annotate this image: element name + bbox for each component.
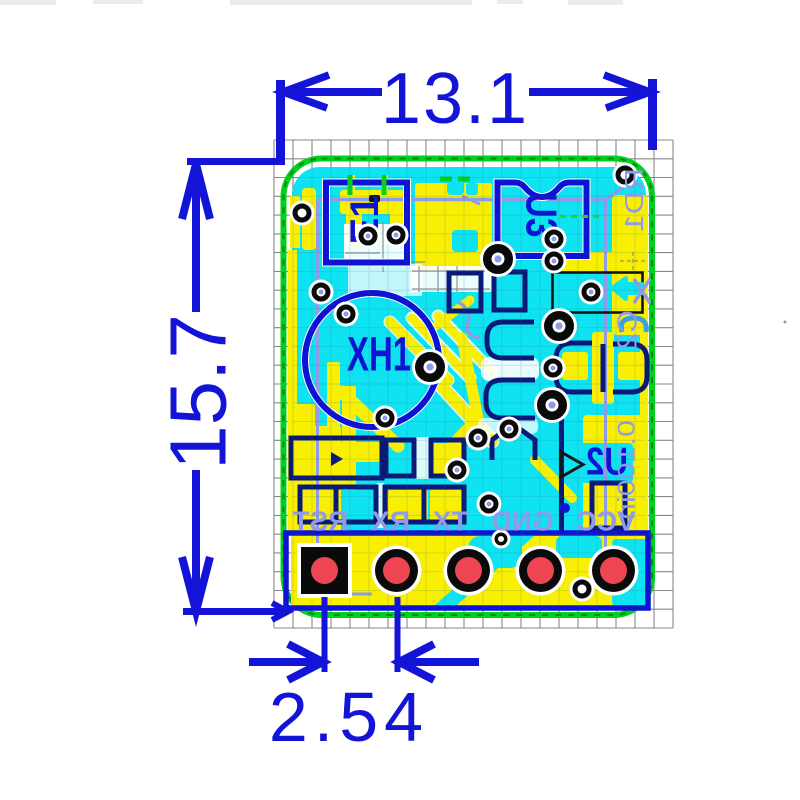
- svg-text:13.1: 13.1: [381, 59, 529, 139]
- svg-text:15.7: 15.7: [154, 314, 243, 470]
- svg-text:RD1: RD1: [619, 168, 649, 232]
- svg-text:2.54: 2.54: [269, 678, 429, 756]
- svg-text:VCC GND TX RX RST: VCC GND TX RX RST: [292, 506, 635, 537]
- svg-text:C2: C2: [612, 310, 643, 350]
- svg-text:XH1: XH1: [347, 329, 411, 382]
- svg-text:0.100in: 0.100in: [614, 420, 641, 520]
